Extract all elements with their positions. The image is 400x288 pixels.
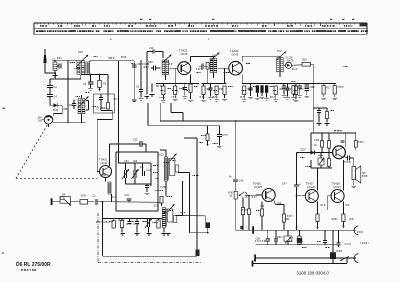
svg-text:R17: R17 <box>326 87 331 90</box>
svg-text:OC45: OC45 <box>181 52 188 56</box>
svg-text:+: + <box>299 183 301 187</box>
svg-text:C45: C45 <box>239 180 244 183</box>
svg-text:C50: C50 <box>256 238 261 241</box>
svg-text:3108 108 0304.0: 3108 108 0304.0 <box>297 271 330 276</box>
svg-text:S70: S70 <box>277 49 282 53</box>
svg-text:C16: C16 <box>125 194 130 197</box>
svg-text:S50: S50 <box>148 60 153 64</box>
svg-text:C15: C15 <box>133 139 138 142</box>
svg-text:R15: R15 <box>302 58 307 62</box>
svg-text:C10: C10 <box>149 47 154 50</box>
svg-text:AC126: AC126 <box>307 185 315 189</box>
svg-text:TS423: TS423 <box>230 49 239 53</box>
svg-text:VDR: VDR <box>81 194 86 197</box>
svg-text:OC44: OC44 <box>101 161 108 165</box>
svg-text:S40: S40 <box>78 50 83 54</box>
svg-text:D6 RL 275/00R: D6 RL 275/00R <box>16 262 51 268</box>
svg-text:AC127: AC127 <box>333 185 341 189</box>
svg-text:AC125: AC125 <box>254 185 262 189</box>
svg-text:S12: S12 <box>154 204 159 208</box>
svg-text:5Ω: 5Ω <box>362 171 365 175</box>
svg-text:OC45: OC45 <box>232 52 239 56</box>
svg-text:S10: S10 <box>159 153 164 157</box>
svg-text:C47: C47 <box>282 183 287 186</box>
svg-text:GD7: GD7 <box>301 148 307 152</box>
